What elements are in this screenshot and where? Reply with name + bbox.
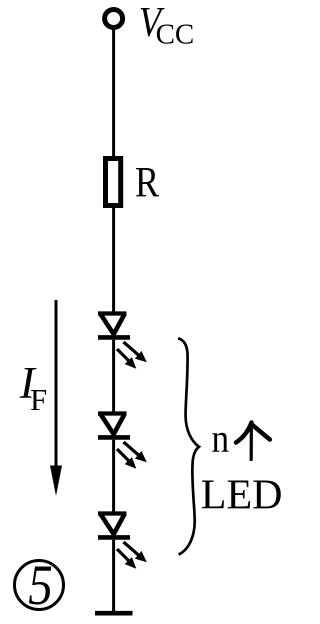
current arrow IF xyxy=(50,300,62,496)
node VCC terminal circle xyxy=(105,10,123,28)
LED D2 xyxy=(98,414,147,469)
figure number circle 5 xyxy=(15,555,64,617)
svg-text:R: R xyxy=(135,158,160,206)
wire D2 to D3 xyxy=(112,440,115,513)
ground terminal bar xyxy=(95,611,133,616)
svg-text:5: 5 xyxy=(28,555,53,617)
label IF xyxy=(19,358,48,417)
wire from resistor to LED D1 xyxy=(112,205,115,313)
resistor R xyxy=(106,159,121,206)
svg-text:F: F xyxy=(30,382,47,417)
LED D1 xyxy=(98,314,147,369)
wire from VCC to resistor xyxy=(112,30,115,159)
wire D3 to bottom terminal xyxy=(112,540,115,613)
label VCC xyxy=(139,0,195,51)
Chinese character GE (n units) xyxy=(236,423,270,460)
brace grouping LEDs xyxy=(178,338,199,554)
svg-text:CC: CC xyxy=(156,19,195,51)
svg-text:n: n xyxy=(212,416,230,461)
wire D1 to D2 xyxy=(112,340,115,413)
LED D3 xyxy=(98,514,147,569)
svg-text:LED: LED xyxy=(201,473,283,519)
